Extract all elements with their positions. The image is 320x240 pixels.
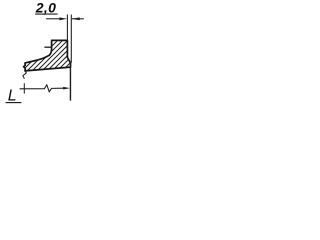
extension line inner (x=67.5) — [66, 15, 68, 41]
break zigzag under band left end — [23, 71, 26, 79]
top dim line left with arrow — [46, 18, 60, 20]
ledge edge line — [44, 46, 51, 48]
top dim line right with arrow — [72, 18, 84, 20]
part outline — [24, 40, 71, 71]
svg-text:L: L — [8, 87, 17, 104]
svg-text:2,0: 2,0 — [35, 0, 56, 16]
bottom dim line with break zigzag and arrow — [20, 85, 64, 92]
left extension tick for L — [23, 83, 25, 93]
hatching of section — [17, 36, 107, 76]
L extension line right — [69, 67, 71, 101]
underline of 2,0 — [35, 13, 57, 15]
underline of L — [6, 102, 22, 104]
extension line outer (x=71.3) — [70, 15, 72, 63]
